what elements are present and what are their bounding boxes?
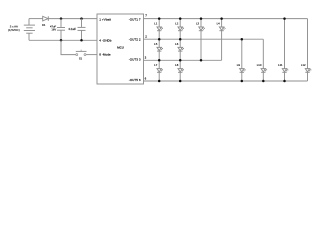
svg-text:D1: D1: [42, 23, 46, 27]
rail OUT2 drop to L10: [262, 39, 264, 68]
junction rail2 x180.2: [179, 38, 182, 41]
wire L3 anode: [200, 19, 202, 27]
wire L2 anode: [179, 19, 181, 27]
rail OUT1 (top): [144, 18, 308, 20]
capacitor C2 0.1uF: [69, 19, 86, 41]
wire L5 cathode: [158, 51, 160, 60]
wire L4 anode: [221, 19, 223, 27]
junction rail2 x241.8: [241, 38, 244, 41]
svg-text:L5: L5: [154, 42, 158, 46]
wire S1 to IC pin8: [86, 54, 97, 56]
IC U1 MCU box: [97, 14, 144, 84]
svg-text:L12: L12: [301, 63, 306, 67]
wire D1 to IC pin1: [48, 18, 97, 20]
wire L7 cathode: [158, 72, 160, 81]
svg-text:L8: L8: [175, 63, 179, 67]
wire L1 anode: [158, 19, 160, 27]
LED L8: [175, 63, 184, 72]
wire L4 cathode to rail3: [221, 31, 223, 61]
junction rail1 x284.5: [283, 17, 286, 20]
svg-text:8 -Mode: 8 -Mode: [99, 53, 111, 57]
svg-text:-OUT1 7: -OUT1 7: [129, 17, 141, 21]
wire L5 anode: [158, 39, 160, 47]
LED L3: [196, 22, 205, 31]
wire L8 cathode: [179, 72, 181, 81]
LED L1: [154, 22, 163, 31]
junction rail1 x221.6: [220, 17, 223, 20]
junction rail4 x241.8: [241, 80, 244, 83]
junction rail3 x159.2: [158, 59, 161, 62]
wire L9 anode from rail2: [241, 39, 243, 68]
LED L4: [217, 22, 226, 31]
svg-text:L11: L11: [278, 63, 283, 67]
svg-text:-OUT5 6: -OUT5 6: [129, 78, 141, 82]
svg-text:-OUT2 2: -OUT2 2: [129, 37, 141, 41]
svg-text:L2: L2: [175, 22, 179, 26]
junction C1 bottom / switch branch: [60, 39, 63, 42]
svg-text:(4,5VDC): (4,5VDC): [8, 28, 20, 32]
junction rail3 x201: [200, 59, 203, 62]
wire L8 anode: [179, 60, 181, 68]
junction rail3 x180.2: [179, 59, 182, 62]
junction rail4 x180.2: [179, 80, 182, 83]
wire battery+ to D1: [29, 18, 43, 20]
wire L3 cathode to rail3: [200, 31, 202, 61]
junction rail1 x159.2: [158, 17, 161, 20]
rail OUT3: [144, 59, 222, 61]
svg-text:1 +Vbatt: 1 +Vbatt: [99, 17, 111, 21]
svg-text:L3: L3: [196, 22, 200, 26]
junction C2 bottom: [80, 39, 83, 42]
wire L6 anode: [179, 39, 181, 47]
battery BT1 3xAA: [24, 19, 35, 41]
rail OUT5 (bottom return): [144, 80, 308, 82]
svg-text:MCU: MCU: [117, 45, 124, 49]
switch S1 branch wire: [61, 40, 76, 54]
junction rail1 x180.2: [179, 17, 182, 20]
svg-text:4 -GNDb: 4 -GNDb: [99, 39, 111, 43]
svg-text:L9: L9: [237, 63, 241, 67]
junction C2 top: [80, 17, 83, 20]
junction rail2 x159.2: [158, 38, 161, 41]
svg-text:L7: L7: [154, 63, 158, 67]
junction rail4 x263.3: [262, 80, 265, 83]
svg-text:L4: L4: [217, 22, 221, 26]
junction rail1 x201: [200, 17, 203, 20]
LED L7: [154, 63, 163, 72]
junction rail4 x159.2: [158, 80, 161, 83]
LED L10: [257, 63, 267, 73]
svg-text:L10: L10: [257, 63, 262, 67]
LED L6: [175, 42, 184, 51]
LED L9: [237, 63, 246, 73]
wire L6 cathode: [179, 51, 181, 60]
wire L11 anode from rail1: [284, 19, 286, 69]
svg-text:16V: 16V: [51, 28, 56, 32]
junction rail4 x284.5: [283, 80, 286, 83]
svg-text:S1: S1: [79, 57, 83, 61]
svg-text:L1: L1: [154, 22, 158, 26]
wire L1 cathode to rail2: [158, 31, 160, 40]
junction C1 top: [60, 17, 63, 20]
wire L2 cathode to rail2: [179, 31, 181, 40]
LED L12: [301, 63, 311, 73]
LED L5: [154, 42, 163, 51]
svg-text:0.1uF: 0.1uF: [69, 27, 77, 31]
LED L11: [278, 63, 288, 73]
rail OUT2: [144, 38, 264, 40]
wire L11 cathode: [284, 72, 286, 81]
pushbutton S1: [76, 50, 87, 61]
wire L10 cathode: [262, 72, 264, 81]
rail OUT1 right drop to L12: [307, 19, 309, 69]
capacitor C1 4.7uF 16V: [50, 19, 65, 41]
wire L9 cathode: [241, 72, 243, 81]
diode D1: [42, 16, 48, 27]
svg-text:L6: L6: [175, 42, 179, 46]
svg-text:-OUT3 3: -OUT3 3: [129, 58, 141, 62]
wire L12 cathode: [307, 72, 309, 81]
LED L2: [175, 22, 184, 31]
wire battery- to IC pin4: [29, 39, 97, 41]
wire L7 anode: [158, 60, 160, 68]
